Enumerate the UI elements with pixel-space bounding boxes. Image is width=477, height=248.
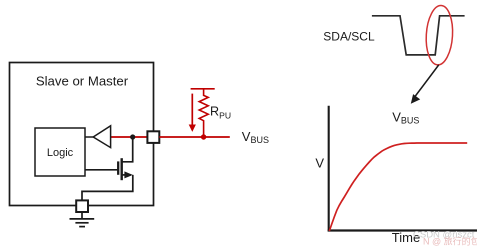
wire logic to buffer tip <box>85 136 94 138</box>
node: red junction dot under resistor <box>201 134 206 139</box>
transistor Q1 source wire with arrow <box>122 174 131 176</box>
transistor Q1 channel bar <box>120 158 122 180</box>
red bus wire outside box <box>159 136 230 138</box>
svg-text:V: V <box>315 155 324 170</box>
logic block <box>35 128 85 176</box>
zoom ellipse on rising edge <box>425 5 455 66</box>
charge curve VBUS rise <box>329 143 467 231</box>
current direction arrow <box>191 94 193 126</box>
bus pin pad on right edge <box>147 131 159 143</box>
graph y-axis <box>328 106 330 232</box>
node: junction dot on bus <box>130 134 135 139</box>
svg-text:SDA/SCL: SDA/SCL <box>323 29 375 43</box>
arrow from ellipse to VBUS <box>415 65 439 97</box>
ground pin pad <box>76 200 88 212</box>
VCC rail bar <box>191 88 215 90</box>
wire source to ground pin <box>82 175 133 201</box>
red bus wire inside box <box>111 136 148 138</box>
waveform SDA/SCL <box>372 16 465 55</box>
transistor Q1 gate bar <box>117 161 119 174</box>
ground symbol <box>81 212 83 218</box>
wire gate (logic to mosfet gate) <box>85 169 118 171</box>
graph x-axis <box>328 229 477 231</box>
wire drain (dot down to mosfet drain) <box>122 137 133 162</box>
svg-text:Slave or Master: Slave or Master <box>36 74 129 89</box>
IC box U1 (Slave or Master) <box>10 63 154 206</box>
resistor R_PU zigzag <box>199 89 208 137</box>
svg-text:Logic: Logic <box>47 147 74 159</box>
input buffer A1 <box>93 126 110 148</box>
svg-text:N @ 旅行的包子: N @ 旅行的包子 <box>423 236 477 247</box>
